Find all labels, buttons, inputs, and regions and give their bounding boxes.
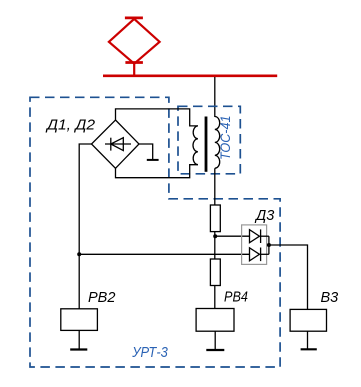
wire node to D3 top diode anode (215, 235, 249, 237)
transformer core (205, 117, 208, 172)
node junction to D3 top diode (213, 234, 217, 238)
wire bridge bottom to primary bottom (116, 165, 198, 178)
diode block D3 (gray box) (242, 225, 267, 265)
resistor R1 (210, 205, 220, 232)
relay PB2 box (61, 309, 98, 331)
wire D3 to B3 (269, 245, 308, 309)
wire bridge top to primary top (116, 109, 198, 126)
transformer T primary winding (3 arcs) (193, 126, 198, 165)
svg-text:УРТ-3: УРТ-3 (131, 345, 167, 361)
PB4 ground bar (206, 349, 224, 351)
D3 top diode (250, 229, 269, 243)
bus bar (red) (103, 75, 277, 78)
box TOC-41 (dashed blue) (178, 106, 240, 174)
relay B3 box (290, 309, 326, 331)
wire bridge left vertex down to PB2 (79, 144, 91, 309)
B3 ground bar (301, 348, 317, 350)
svg-text:РВ4: РВ4 (224, 290, 248, 306)
wire bus to transformer secondary (214, 77, 216, 117)
bridge right vertex terminal (bar) (139, 144, 153, 159)
B3 ground stub (307, 331, 309, 349)
node junction at PB2 wire (77, 252, 81, 256)
svg-text:Д1, Д2: Д1, Д2 (45, 118, 95, 134)
bridge rectifier D1 D2 (diamond) (92, 120, 140, 168)
PB2 ground bar (70, 348, 87, 350)
svg-text:Д3: Д3 (254, 208, 274, 224)
arrester FV (red diamond symbol) (109, 18, 160, 76)
PB4 ground stub (214, 331, 216, 349)
wire horizontal to D3 bottom diode anode (79, 253, 249, 255)
svg-text:В3: В3 (321, 290, 339, 306)
box URT-3 (dashed blue boundary) (30, 97, 280, 367)
wire R2 to PB4 box (214, 286, 216, 309)
PB2 ground stub (78, 330, 80, 349)
wire secondary to resistor R1 (214, 168, 216, 205)
relay PB4 box (196, 309, 234, 332)
resistor R2 (210, 259, 220, 286)
svg-text:РВ2: РВ2 (88, 290, 115, 306)
D3 cathode link (268, 236, 270, 254)
transformer secondary winding (4 arcs) (215, 117, 220, 169)
bridge inner diode (105, 138, 131, 151)
wire R1 to R2 (214, 232, 216, 259)
D3 bottom diode (250, 248, 269, 262)
node D3 output (267, 243, 271, 247)
